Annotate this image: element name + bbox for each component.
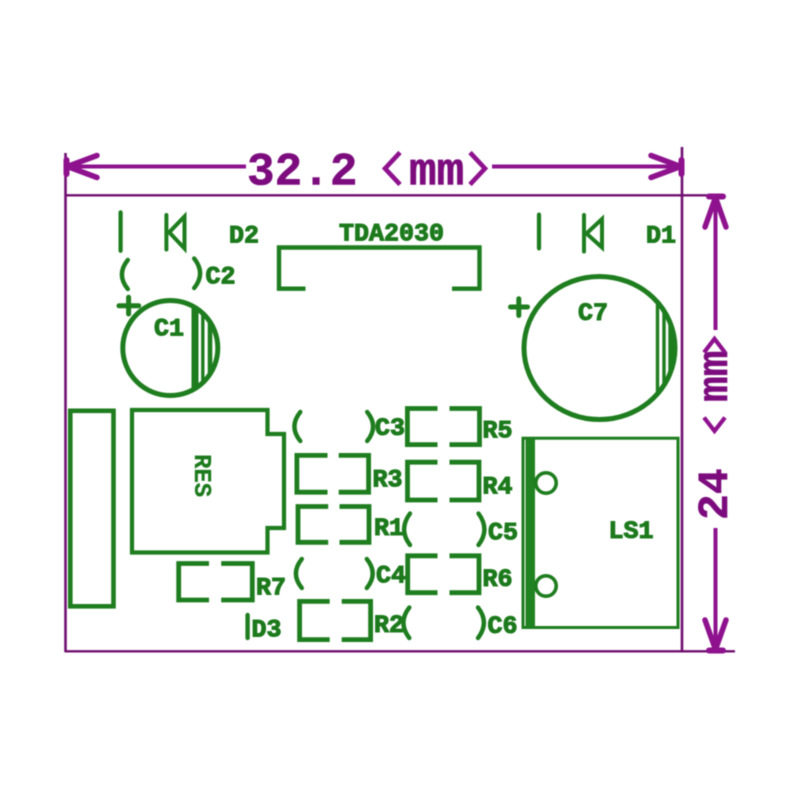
svg-text:C4: C4	[376, 562, 406, 591]
resistor R7	[179, 564, 253, 601]
svg-text:C6: C6	[488, 612, 518, 641]
connector pad strip outline	[70, 411, 113, 607]
wire stub left of D1	[537, 215, 541, 249]
bottom arrowhead	[705, 620, 726, 651]
LS1 left thick bar	[526, 440, 536, 627]
svg-text:R1: R1	[374, 514, 404, 543]
capacitor C4	[296, 559, 373, 588]
svg-text:D1: D1	[646, 222, 676, 251]
svg-text:R4: R4	[483, 473, 513, 502]
svg-text:mm: mm	[409, 147, 464, 199]
resistor R2	[300, 601, 371, 639]
capacitor C1 polarity stripes	[195, 298, 210, 398]
vertical dimension line 24mm, bottom segment	[714, 528, 718, 650]
board outline bottom edge (extends right to vertical dimension line)	[65, 650, 735, 652]
horizontal dimension line 32.2mm, right segment	[492, 165, 681, 169]
svg-text:R6: R6	[483, 565, 513, 594]
capacitor C5	[404, 514, 484, 546]
dimension text 24 (mm) rotated	[691, 339, 740, 520]
capacitor C7 polarity stripes	[658, 280, 671, 420]
svg-text:R3: R3	[373, 466, 403, 495]
svg-text:RES: RES	[187, 454, 214, 497]
svg-text:24: 24	[691, 468, 740, 520]
wire stub left of D2	[118, 212, 122, 250]
svg-text:C7: C7	[578, 299, 608, 328]
capacitor C7 body	[524, 277, 675, 420]
svg-text:32.2: 32.2	[247, 147, 357, 199]
angle bracket right of mm	[470, 153, 485, 185]
svg-text:R7: R7	[256, 574, 286, 603]
svg-text:LS1: LS1	[609, 517, 654, 546]
top arrowhead	[705, 197, 726, 228]
svg-text:mm: mm	[691, 350, 740, 402]
capacitor C1 body	[123, 301, 218, 396]
svg-text:C5: C5	[488, 519, 518, 548]
svg-text:C3: C3	[375, 414, 405, 443]
plus sign C1 polarity	[119, 297, 139, 314]
regulator RES package outline	[132, 410, 284, 553]
svg-text:TDA2030: TDA2030	[339, 220, 444, 249]
svg-text:C1: C1	[154, 315, 184, 344]
resistor R1	[298, 507, 369, 543]
svg-text:R2: R2	[374, 611, 404, 640]
angle bracket left of mm	[385, 153, 400, 185]
plus sign C7 polarity	[511, 299, 528, 316]
LS1 pin hole bottom	[536, 576, 556, 596]
board outline top edge (extends right to vertical dimension line)	[65, 194, 720, 196]
board outline right edge + dimension extension line	[681, 147, 684, 652]
speaker terminal LS1 outline	[523, 438, 678, 627]
horizontal dimension line 32.2mm, left segment	[67, 165, 246, 169]
resistor R3	[297, 455, 369, 492]
resistor R4	[408, 462, 480, 500]
diode D3 cathode bar	[245, 615, 249, 638]
capacitor C6	[403, 608, 484, 639]
left arrowhead	[67, 156, 98, 178]
LS1 pin hole top	[536, 473, 556, 493]
svg-text:D3: D3	[252, 616, 282, 645]
board outline left edge + dimension extension line	[64, 153, 67, 652]
resistor R6	[408, 556, 479, 593]
capacitor C3	[294, 412, 373, 441]
svg-text:C2: C2	[206, 263, 236, 292]
diode D2	[166, 215, 184, 250]
diode D1	[584, 215, 602, 252]
IC U1 TDA2030 package outline	[279, 248, 480, 289]
capacitor C2	[122, 259, 200, 290]
right arrowhead	[651, 156, 682, 178]
resistor R5	[407, 409, 479, 445]
vertical dimension line 24mm, top segment	[714, 197, 718, 330]
svg-text:D2: D2	[229, 222, 259, 251]
svg-text:R5: R5	[483, 417, 513, 446]
